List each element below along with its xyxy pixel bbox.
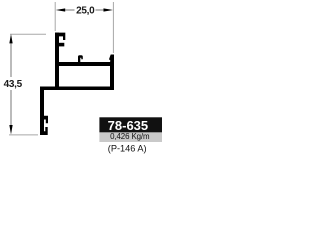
profile bead hook on top edge [78,55,83,62]
dimension line 43,5 [9,34,12,135]
extension line right of top dimension [112,2,114,53]
svg-text:(P-146 A): (P-146 A) [108,144,147,154]
profile middle short arm [59,43,64,47]
svg-text:25,0: 25,0 [76,5,95,16]
svg-text:78-635: 78-635 [108,118,148,133]
label grey box 0,426 Kg/m [99,132,162,142]
profile bottom hook lower jaw [44,127,48,135]
aluminium profile cross-section [40,33,114,135]
extension line top of left dimension [10,33,46,35]
extension line left of top dimension [54,2,56,31]
dimension text 43,5 [4,79,23,90]
profile bottom leg [40,87,44,136]
profile right wall with pointed top barb [109,55,114,91]
label text (P-146 A) [108,144,147,154]
svg-text:43,5: 43,5 [4,79,23,90]
profile top glazing arm with down tip [55,33,65,40]
label black box 78-635 [99,117,162,133]
profile left wall [55,33,59,90]
dimension line 25,0 [56,8,113,11]
extension line bottom of left dimension [9,134,38,136]
svg-text:0,426 Kg/m: 0,426 Kg/m [110,132,150,141]
profile box bottom edge [40,87,114,91]
dimension text 25,0 [76,5,95,16]
profile box top edge [59,62,114,66]
profile bottom hook upper jaw [44,116,48,124]
